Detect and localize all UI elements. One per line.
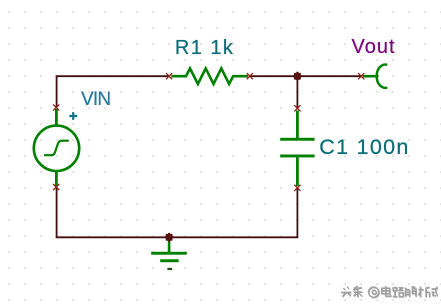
- watermark: 头条 @电路解析式: [340, 285, 438, 301]
- junction node at ground: [165, 233, 174, 242]
- pin connection x at Vout port pin: [358, 73, 364, 79]
- ground symbol: [151, 241, 187, 271]
- wire bottom rail: [56, 236, 299, 238]
- label R1 1k: [175, 37, 235, 60]
- label Vout: [352, 36, 396, 59]
- junction node A (resistor/capacitor/output): [293, 72, 302, 81]
- pin connection x at capacitor C1 top pin: [294, 105, 300, 111]
- output port Vout (lead and open crescent): [363, 65, 388, 88]
- capacitor C1 (two plates and leads): [280, 111, 314, 187]
- wire left vertical from VIN bottom pin to bottom rail: [56, 187, 58, 237]
- pin connection x at capacitor C1 bottom pin: [294, 185, 300, 191]
- plus sign of source VIN: [69, 112, 77, 120]
- wire from resistor R1 right pin to node: [250, 75, 298, 77]
- wire from capacitor C1 bottom pin down to bottom rail: [296, 188, 298, 238]
- wire top-left vertical from VIN top pin up to top rail: [56, 76, 58, 107]
- wire top horizontal from corner to resistor R1 left pin: [56, 75, 169, 77]
- pin connection x at VIN top pin: [53, 104, 59, 110]
- pin connection x at resistor R1 right pin: [247, 73, 253, 79]
- pin connection x at resistor R1 left pin: [166, 73, 172, 79]
- label VIN: [81, 89, 110, 111]
- voltage source VIN (circle with ramp symbol and pin leads): [34, 109, 79, 186]
- wire from node down to capacitor C1 top pin: [296, 76, 298, 108]
- resistor R1 (zigzag with leads): [171, 68, 248, 84]
- pin connection x at VIN bottom pin: [53, 184, 59, 190]
- wire from node to Vout port: [297, 75, 361, 77]
- label C1 100n: [319, 135, 409, 160]
